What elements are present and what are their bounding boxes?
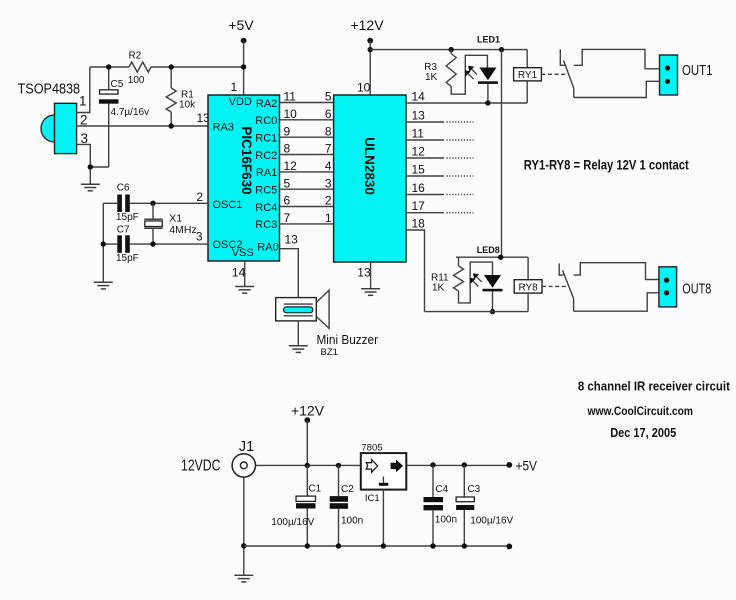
svg-text:J1: J1	[239, 439, 254, 455]
svg-text:OUT1: OUT1	[682, 62, 713, 79]
svg-text:7: 7	[284, 211, 291, 225]
svg-text:C3: C3	[467, 484, 480, 495]
svg-text:RY1-RY8 = Relay 12V 1 contact: RY1-RY8 = Relay 12V 1 contact	[524, 156, 689, 172]
svg-text:18: 18	[412, 217, 426, 231]
svg-text:8: 8	[325, 124, 332, 138]
svg-text:RY8: RY8	[518, 282, 538, 293]
svg-text:3: 3	[81, 131, 89, 146]
svg-text:10k: 10k	[179, 100, 196, 111]
svg-text:X1: X1	[169, 213, 182, 225]
svg-text:1: 1	[79, 94, 87, 109]
svg-text:11: 11	[412, 127, 425, 141]
svg-text:15: 15	[412, 163, 426, 177]
svg-text:13: 13	[285, 233, 299, 247]
svg-text:4: 4	[325, 159, 332, 173]
svg-text:1: 1	[231, 80, 238, 94]
svg-text:10: 10	[284, 107, 298, 121]
svg-text:11: 11	[284, 90, 297, 104]
svg-text:15pF: 15pF	[116, 253, 139, 264]
svg-text:BZ1: BZ1	[321, 347, 338, 358]
svg-text:C6: C6	[117, 183, 130, 194]
svg-text:13: 13	[412, 109, 426, 123]
svg-text:14: 14	[232, 266, 246, 280]
svg-text:10: 10	[357, 81, 371, 95]
svg-text:RC1: RC1	[255, 132, 277, 144]
svg-text:12: 12	[284, 159, 298, 173]
svg-text:PIC16F630: PIC16F630	[239, 126, 254, 194]
svg-text:12: 12	[412, 145, 426, 159]
svg-text:4.7µ/16v: 4.7µ/16v	[111, 107, 150, 118]
svg-text:ULN2830: ULN2830	[362, 137, 377, 195]
svg-text:LED8: LED8	[477, 245, 500, 255]
svg-text:RC4: RC4	[255, 202, 277, 214]
svg-text:LED1: LED1	[477, 35, 500, 45]
svg-text:C1: C1	[308, 484, 321, 495]
svg-text:7805: 7805	[361, 443, 382, 454]
svg-text:1: 1	[325, 211, 332, 225]
svg-text:100µ/16V: 100µ/16V	[470, 515, 513, 526]
svg-text:RC5: RC5	[255, 185, 277, 197]
svg-text:100: 100	[128, 75, 145, 86]
svg-text:RA2: RA2	[256, 98, 277, 110]
svg-text:+12V: +12V	[291, 403, 325, 419]
svg-text:R2: R2	[129, 51, 142, 62]
svg-text:RA3: RA3	[213, 121, 234, 133]
svg-text:15pF: 15pF	[116, 212, 139, 223]
svg-text:OSC1: OSC1	[213, 199, 243, 211]
svg-text:5: 5	[284, 176, 291, 190]
svg-text:RC3: RC3	[255, 219, 277, 231]
svg-text:9: 9	[284, 124, 291, 138]
svg-text:C4: C4	[435, 484, 448, 495]
svg-text:+12V: +12V	[350, 17, 384, 33]
svg-text:8 channel IR receiver circuit: 8 channel IR receiver circuit	[578, 379, 731, 394]
svg-text:16: 16	[412, 181, 426, 195]
svg-text:C7: C7	[117, 225, 130, 236]
svg-text:C2: C2	[341, 484, 354, 495]
svg-text:5: 5	[325, 90, 332, 104]
svg-text:4MHz: 4MHz	[169, 224, 196, 236]
svg-text:+5V: +5V	[228, 17, 254, 33]
svg-text:3: 3	[325, 176, 332, 190]
svg-text:1K: 1K	[432, 282, 445, 293]
svg-text:2: 2	[196, 190, 203, 204]
svg-text:RA1: RA1	[256, 167, 277, 179]
svg-text:2: 2	[80, 113, 88, 128]
svg-text:6: 6	[284, 194, 291, 208]
svg-text:2: 2	[325, 194, 332, 208]
svg-text:+5V: +5V	[516, 457, 538, 473]
svg-text:RC0: RC0	[255, 115, 277, 127]
svg-text:100µ/16V: 100µ/16V	[271, 517, 314, 528]
svg-text:www.CoolCircuit.com: www.CoolCircuit.com	[587, 406, 693, 418]
svg-text:12VDC: 12VDC	[181, 458, 221, 475]
svg-text:IC1: IC1	[365, 493, 380, 504]
svg-text:OUT8: OUT8	[682, 280, 711, 297]
svg-text:RA0: RA0	[257, 241, 278, 253]
svg-text:8: 8	[284, 142, 291, 156]
svg-text:RC2: RC2	[255, 150, 277, 162]
svg-text:3: 3	[196, 230, 203, 244]
svg-text:TSOP4838: TSOP4838	[18, 81, 81, 98]
svg-text:1K: 1K	[425, 72, 438, 83]
svg-text:Dec 17, 2005: Dec 17, 2005	[610, 426, 676, 440]
svg-text:100n: 100n	[435, 514, 457, 525]
svg-text:13: 13	[357, 266, 371, 280]
svg-text:VSS: VSS	[232, 247, 254, 259]
svg-text:100n: 100n	[341, 515, 363, 526]
svg-text:6: 6	[325, 107, 332, 121]
svg-text:17: 17	[412, 199, 426, 213]
svg-text:VDD: VDD	[229, 96, 252, 108]
svg-text:14: 14	[412, 90, 426, 104]
svg-text:Mini Buzzer: Mini Buzzer	[317, 332, 379, 347]
svg-text:7: 7	[325, 142, 332, 156]
svg-text:C5: C5	[111, 79, 124, 90]
svg-text:RY1: RY1	[518, 70, 538, 81]
